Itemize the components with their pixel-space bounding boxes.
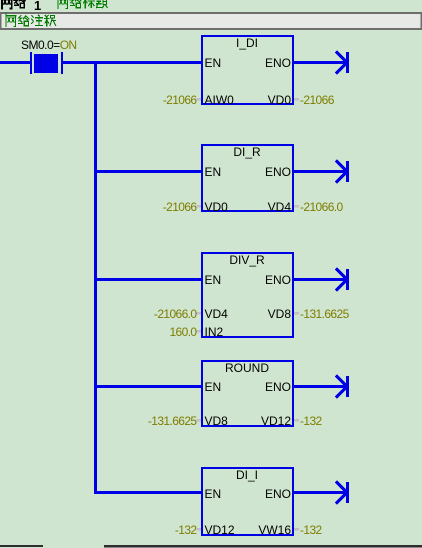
value label -132 (VD12 input) [175, 523, 201, 537]
divider lower edge [104, 547, 422, 548]
svg-text:VD12: VD12 [205, 523, 235, 537]
svg-text:-21066: -21066 [163, 200, 198, 214]
branch wire to DI_I [94, 491, 201, 494]
svg-text:-21066: -21066 [300, 93, 335, 107]
svg-text:VD4: VD4 [268, 200, 292, 214]
svg-text:-21066.0: -21066.0 [300, 200, 343, 214]
open output arrow (I_DI rung) [337, 52, 348, 73]
svg-text:EN: EN [205, 273, 222, 287]
open output arrow (DIV_R rung) [337, 269, 348, 290]
svg-text:DIV_R: DIV_R [229, 253, 265, 267]
svg-text:-21066: -21066 [163, 93, 198, 107]
svg-text:ENO: ENO [265, 380, 291, 394]
svg-text:ROUND: ROUND [225, 361, 269, 375]
wire: DI_I ENO output [294, 491, 346, 494]
svg-text:1: 1 [34, 0, 41, 13]
wire: I_DI ENO output [294, 61, 346, 64]
wire: DIV_R ENO output [294, 278, 346, 281]
svg-text:EN: EN [205, 165, 222, 179]
value label 160.0 (IN2 input) [169, 325, 201, 339]
network title label 网络 1 (bold, top cropped) [2, 0, 41, 13]
open output arrow (ROUND rung) [337, 376, 348, 397]
branch wire to DIV_R [94, 278, 201, 281]
contact SM0.0 (closed, energized) [21, 38, 77, 74]
value label -131.6625 (VD8 output) [294, 307, 350, 321]
network comment box [0, 12, 422, 30]
function block U2 DI_R [202, 145, 293, 214]
svg-text:I_DI: I_DI [236, 36, 258, 50]
value label -21066.0 (VD4 input) [154, 307, 201, 321]
function block U5 DI_I [202, 468, 293, 537]
svg-text:EN: EN [205, 56, 222, 70]
svg-text:-132: -132 [300, 523, 323, 537]
function block U1 I_DI [202, 36, 293, 107]
svg-text:ENO: ENO [265, 56, 291, 70]
svg-text:VD0: VD0 [205, 200, 229, 214]
svg-text:160.0: 160.0 [169, 325, 197, 339]
vertical branch rail [94, 61, 97, 494]
svg-text:AIW0: AIW0 [205, 93, 235, 107]
value label -132 (VW16 output) [294, 523, 323, 537]
wire: DI_R ENO output [294, 170, 346, 173]
value label -132 (VD12 output) [294, 414, 323, 428]
svg-text:ENO: ENO [265, 165, 291, 179]
branch wire to DI_R [94, 170, 201, 173]
open output arrow (DI_R rung) [337, 161, 348, 182]
value label -21066.0 (VD4 output) [294, 200, 343, 214]
next network divider line (left segment) [0, 545, 43, 547]
value label -21066 (VD0 input) [163, 200, 201, 214]
value label -21066 (VD0 output) [294, 93, 335, 107]
svg-text:EN: EN [205, 487, 222, 501]
svg-text:ENO: ENO [265, 273, 291, 287]
function block U3 DIV_R [202, 253, 293, 339]
svg-text:-131.6625: -131.6625 [148, 414, 198, 428]
open output arrow (DI_I rung) [337, 482, 348, 503]
wire: contact to block I_DI / branch node [63, 61, 201, 64]
wire: ROUND ENO output [294, 385, 346, 388]
function block U4 ROUND [202, 361, 293, 428]
value label -131.6625 (VD8 input) [148, 414, 201, 428]
svg-text:VD8: VD8 [268, 307, 292, 321]
svg-text:IN2: IN2 [205, 325, 224, 339]
svg-text:-21066.0: -21066.0 [154, 307, 197, 321]
svg-text:-131.6625: -131.6625 [300, 307, 350, 321]
svg-text:DI_I: DI_I [236, 468, 258, 482]
network title text 网络标题 (green, top cropped) [58, 0, 108, 9]
wire: left rail to contact [0, 61, 30, 64]
next network divider line (right segment) [104, 545, 422, 547]
svg-text:VD8: VD8 [205, 414, 229, 428]
svg-text:VW16: VW16 [258, 523, 291, 537]
svg-text:VD0: VD0 [268, 93, 292, 107]
svg-text:EN: EN [205, 380, 222, 394]
value label -21066 (AIW0 input) [163, 93, 201, 107]
branch wire to ROUND [94, 385, 201, 388]
svg-text:SM0.0=ON: SM0.0=ON [21, 38, 77, 52]
svg-text:DI_R: DI_R [233, 145, 261, 159]
svg-text:VD4: VD4 [205, 307, 229, 321]
svg-text:-132: -132 [175, 523, 198, 537]
svg-text:ENO: ENO [265, 487, 291, 501]
svg-text:VD12: VD12 [261, 414, 291, 428]
svg-text:-132: -132 [300, 414, 323, 428]
